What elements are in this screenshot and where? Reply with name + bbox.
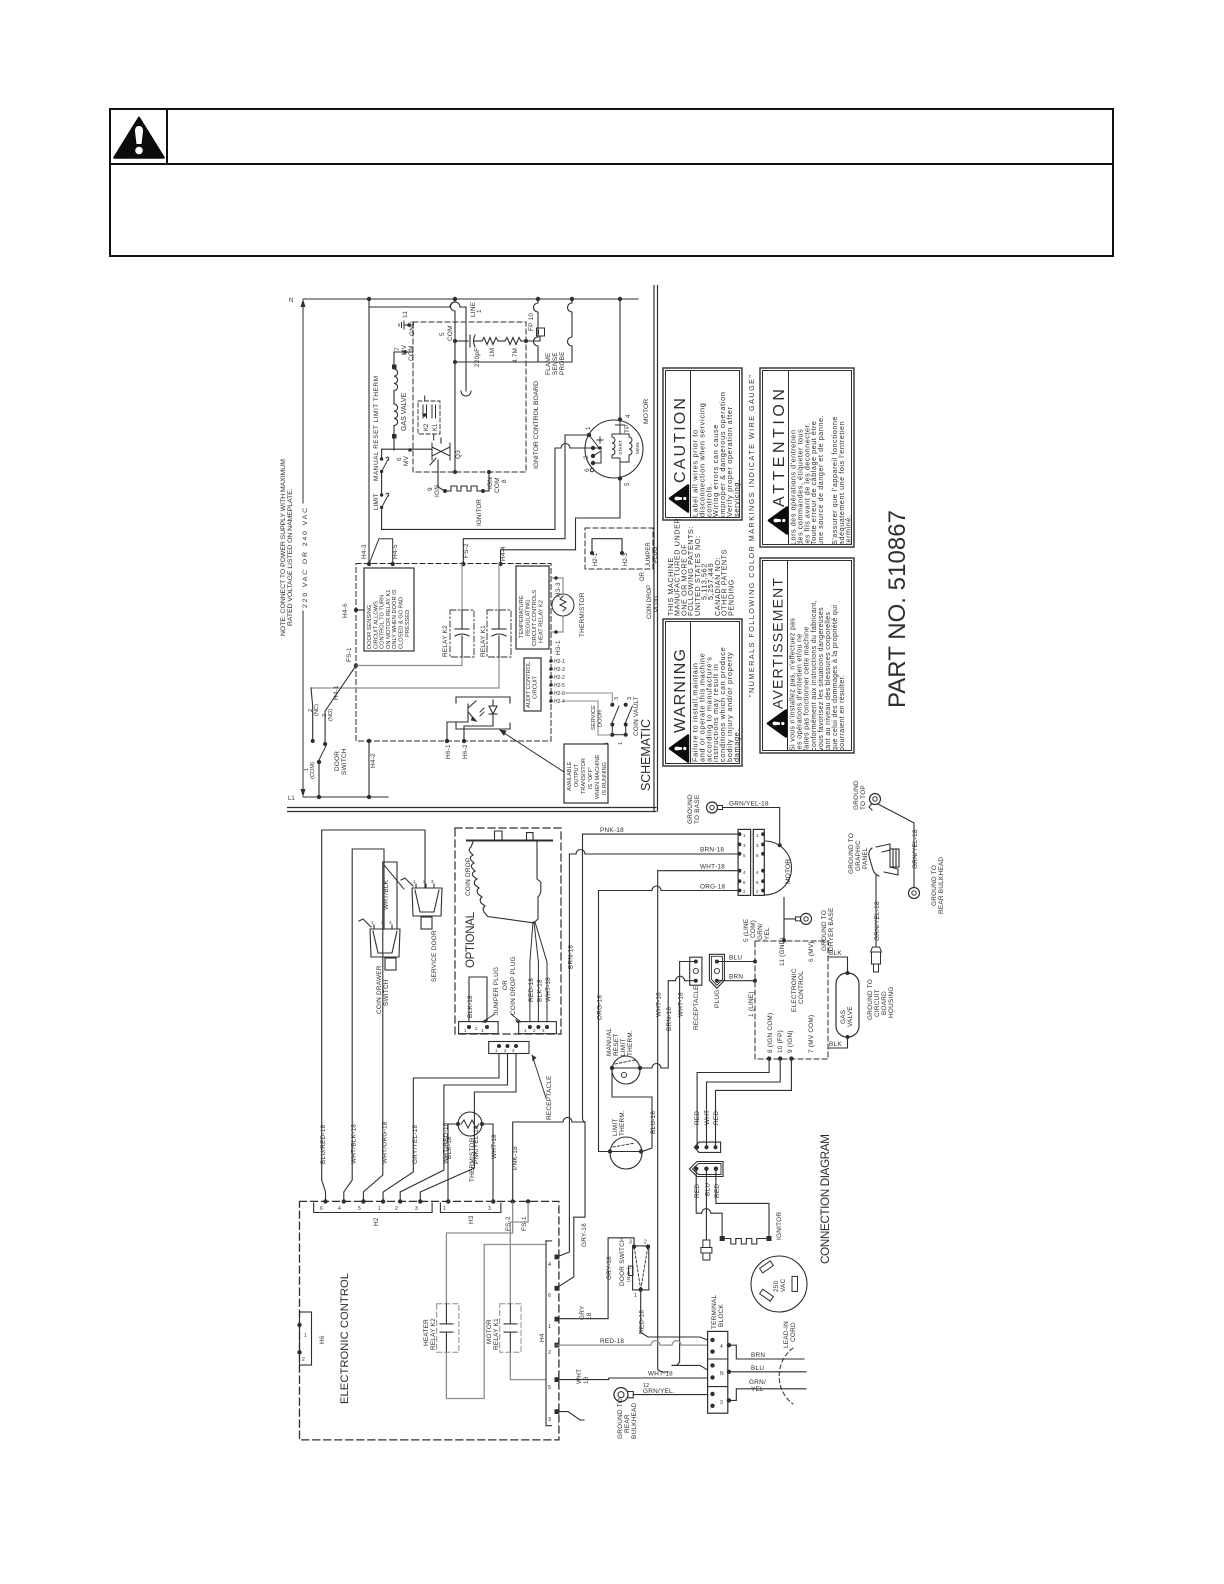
CAUTION box frame bbox=[663, 368, 742, 520]
svg-text:H4: H4 bbox=[539, 1333, 546, 1342]
ground to circuit board housing bbox=[867, 979, 895, 1020]
svg-text:BOARD: BOARD bbox=[881, 991, 888, 1015]
svg-text:18: 18 bbox=[583, 1376, 590, 1384]
WARNING title bbox=[670, 649, 689, 762]
svg-text:3: 3 bbox=[548, 1417, 551, 1423]
receptacle connector bbox=[489, 1042, 529, 1054]
svg-text:RATED VOLTAGE LISTED ON NAMEPL: RATED VOLTAGE LISTED ON NAMEPLATE. bbox=[287, 488, 294, 626]
svg-text:250: 250 bbox=[773, 1280, 780, 1292]
svg-text:OR: OR bbox=[502, 980, 509, 990]
wire IGN COM 8 bbox=[483, 472, 489, 491]
svg-text:LIMIT: LIMIT bbox=[620, 1038, 627, 1056]
svg-text:IGN: IGN bbox=[434, 485, 441, 497]
wires H6-1 H6-2 bbox=[447, 718, 468, 741]
svg-text:GRN/YEL.: GRN/YEL. bbox=[643, 1388, 675, 1395]
svg-text:H2-5: H2-5 bbox=[554, 683, 565, 689]
svg-text:FP 10: FP 10 bbox=[528, 313, 535, 331]
svg-text:6: 6 bbox=[548, 1293, 551, 1299]
svg-text:Q3: Q3 bbox=[455, 450, 462, 459]
wire audit to service door bbox=[565, 693, 612, 702]
wire WHT-18 riser 1 bbox=[658, 871, 668, 1372]
svg-text:WARNING: WARNING bbox=[672, 649, 689, 733]
svg-text:COM): COM) bbox=[750, 920, 757, 938]
svg-text:COIN DROP: COIN DROP bbox=[465, 858, 472, 896]
wire H2-3 PNK/YEL-18 to receptacle bbox=[420, 1054, 516, 1204]
wire motor feed x620 bbox=[619, 299, 621, 419]
svg-text:TO TOP: TO TOP bbox=[860, 785, 867, 810]
ATTENTION box frame bbox=[760, 368, 854, 547]
AVERTISSEMENT title bbox=[768, 578, 786, 737]
svg-text:NOTE: CONNECT TO POWER SUPPLY: NOTE: CONNECT TO POWER SUPPLY WITH MAXIM… bbox=[280, 459, 287, 636]
svg-text:GRAPHIC: GRAPHIC bbox=[855, 840, 862, 871]
ground to base eyelet bbox=[707, 802, 718, 813]
svg-text:8 (IGN COM): 8 (IGN COM) bbox=[767, 1013, 774, 1053]
svg-text:GRY/YEL-18: GRY/YEL-18 bbox=[412, 1124, 419, 1164]
svg-text:COM: COM bbox=[447, 325, 454, 341]
coin drop plug connector (right) bbox=[519, 1022, 557, 1034]
svg-text:7: 7 bbox=[394, 347, 401, 351]
svg-text:GRN/YEL-18: GRN/YEL-18 bbox=[729, 801, 769, 808]
test point TP bbox=[616, 420, 625, 431]
svg-text:IGNITOR: IGNITOR bbox=[776, 1212, 783, 1240]
relay K1 coil bbox=[487, 610, 511, 657]
node FS-2 bbox=[511, 1199, 515, 1203]
wire FS-2 to heater relay K2 bbox=[446, 1203, 512, 1304]
svg-text:COIN VAULT: COIN VAULT bbox=[633, 696, 640, 736]
svg-text:GRN/YEL-18: GRN/YEL-18 bbox=[874, 901, 881, 941]
svg-text:1M: 1M bbox=[489, 348, 496, 357]
ignitor element (connection diagram) bbox=[725, 1239, 767, 1245]
svg-text:PART NO. 510867: PART NO. 510867 bbox=[884, 510, 911, 708]
svg-text:H2-3: H2-3 bbox=[554, 667, 565, 673]
svg-text:K2: K2 bbox=[424, 423, 430, 431]
svg-text:IS RUNNING: IS RUNNING bbox=[602, 762, 608, 795]
wire WHT-18 risers into terminal block bbox=[672, 1365, 708, 1370]
warning triangle icon bbox=[115, 118, 164, 158]
svg-text:GROUND TO: GROUND TO bbox=[931, 865, 938, 906]
svg-text:IGNITOR: IGNITOR bbox=[476, 499, 483, 526]
wire BLU lead-in bbox=[729, 1371, 806, 1373]
svg-text:REGULATING: REGULATING bbox=[526, 599, 532, 636]
blu/brn plug bbox=[709, 954, 724, 988]
svg-text:2: 2 bbox=[548, 1350, 551, 1356]
svg-text:H4-5: H4-5 bbox=[392, 544, 399, 559]
svg-text:BLU-18: BLU-18 bbox=[650, 1111, 657, 1134]
svg-text:REAR BULKHEAD: REAR BULKHEAD bbox=[938, 857, 945, 914]
wire H2-4 WHT/BLK to coin drawer switch bbox=[344, 849, 384, 1203]
svg-text:RED-18: RED-18 bbox=[528, 978, 535, 1002]
svg-text:N: N bbox=[289, 298, 293, 304]
svg-text:BLK-18: BLK-18 bbox=[467, 995, 474, 1018]
svg-text:2: 2 bbox=[644, 1240, 647, 1246]
svg-text:ORG-18: ORG-18 bbox=[597, 995, 604, 1020]
svg-text:WHT-18: WHT-18 bbox=[656, 992, 663, 1017]
node H4-6 bbox=[354, 608, 358, 612]
wire GRN/YEL-18 ground to base bbox=[723, 808, 780, 846]
ATTENTION body text bbox=[789, 415, 853, 545]
svg-text:START: START bbox=[618, 440, 623, 455]
svg-text:BLU/RED-18: BLU/RED-18 bbox=[320, 1124, 327, 1164]
node H4-4 bbox=[498, 562, 502, 566]
svg-text:IS "OFF": IS "OFF" bbox=[588, 767, 594, 789]
ground eyelet GRN/YEL 12 bbox=[614, 1388, 628, 1402]
svg-text:GROUND TO: GROUND TO bbox=[617, 1398, 624, 1439]
svg-text:OR: OR bbox=[640, 571, 646, 581]
svg-text:THERM.: THERM. bbox=[619, 1110, 626, 1136]
wire RED-18 door switch bbox=[641, 1292, 708, 1340]
rail A (bottom) bbox=[303, 796, 388, 798]
wire door sw NO to FS-1 bbox=[325, 666, 356, 745]
svg-text:2: 2 bbox=[583, 455, 590, 459]
svg-text:JUMPER PLUG: JUMPER PLUG bbox=[493, 967, 500, 1015]
svg-text:1: 1 bbox=[618, 742, 624, 745]
svg-text:H4-6: H4-6 bbox=[342, 603, 349, 618]
wire COM feed x538 bbox=[526, 299, 538, 362]
svg-text:WHT-18: WHT-18 bbox=[700, 864, 725, 871]
svg-text:SWITCH: SWITCH bbox=[383, 979, 390, 1006]
wire RED left to ignitor bbox=[696, 1169, 722, 1236]
svg-text:H2-2: H2-2 bbox=[554, 675, 565, 681]
svg-text:5: 5 bbox=[624, 482, 631, 486]
svg-text:ELECTRONIC: ELECTRONIC bbox=[791, 968, 798, 1012]
svg-text:SERVICE DOOR: SERVICE DOOR bbox=[431, 930, 438, 982]
left supply span line with arrows bbox=[302, 302, 304, 794]
svg-text:H6-1: H6-1 bbox=[445, 744, 452, 759]
svg-text:HEAT RELAY K2: HEAT RELAY K2 bbox=[539, 600, 545, 643]
CAUTION title bbox=[670, 398, 689, 512]
svg-text:DRYER BASE: DRYER BASE bbox=[828, 907, 835, 951]
ignitor connector plugs RED WHT RED bbox=[694, 1142, 720, 1152]
svg-text:SCHEMATIC: SCHEMATIC bbox=[639, 719, 653, 791]
svg-text:4: 4 bbox=[720, 1344, 723, 1350]
wire manual reset right to BRN riser bbox=[640, 1064, 668, 1069]
svg-text:CONNECTION DIAGRAM: CONNECTION DIAGRAM bbox=[818, 1134, 832, 1264]
svg-text:COIN DRAWER: COIN DRAWER bbox=[376, 965, 383, 1014]
note text bbox=[280, 459, 294, 636]
node H4-3 bbox=[367, 562, 371, 566]
svg-text:pourraient en résulter.: pourraient en résulter. bbox=[839, 675, 846, 751]
svg-text:IGNITOR CONTROL BOARD: IGNITOR CONTROL BOARD bbox=[533, 381, 540, 469]
svg-text:H4-3: H4-3 bbox=[361, 544, 368, 559]
svg-text:RELAY K1: RELAY K1 bbox=[480, 625, 487, 657]
svg-text:GRN/: GRN/ bbox=[757, 923, 764, 940]
ground to dryer base eyelet bbox=[801, 913, 812, 924]
wire ORG-18 riser bbox=[599, 891, 610, 1152]
svg-text:10 (FP): 10 (FP) bbox=[777, 1030, 784, 1053]
motor M (connection diagram) bbox=[765, 841, 792, 895]
svg-text:BLU: BLU bbox=[751, 1365, 764, 1372]
wire WHT-18 motor bbox=[658, 870, 738, 872]
motor start winding bbox=[612, 431, 629, 458]
svg-text:6: 6 bbox=[396, 457, 403, 461]
lead-in cord arc bbox=[779, 1348, 793, 1404]
WARNING box frame bbox=[663, 619, 742, 766]
svg-text:11: 11 bbox=[402, 311, 409, 318]
svg-text:3: 3 bbox=[488, 1206, 491, 1212]
heater relay K2 bbox=[437, 1304, 459, 1353]
terminal block bbox=[708, 1331, 728, 1413]
svg-text:1 (LINE): 1 (LINE) bbox=[748, 991, 755, 1017]
svg-text:VAC: VAC bbox=[780, 1278, 787, 1292]
svg-text:(NC): (NC) bbox=[314, 704, 320, 716]
svg-text:BRN-18: BRN-18 bbox=[700, 847, 724, 854]
svg-text:GRY-18: GRY-18 bbox=[581, 1223, 588, 1247]
svg-text:DOOR: DOOR bbox=[334, 751, 341, 771]
wire H2-1 GRY/YEL-18 to receptacle bbox=[383, 1054, 499, 1204]
svg-text:DOOR: DOOR bbox=[598, 710, 604, 727]
wire COM net x572 bbox=[455, 299, 572, 362]
svg-text:les opérations d'entretien et/: les opérations d'entretien et/ou ne bbox=[797, 634, 804, 752]
coin drop mechanism outline bbox=[467, 831, 552, 923]
svg-text:PRESSED: PRESSED bbox=[405, 610, 411, 637]
wire motor to dryer base ground bbox=[783, 898, 785, 941]
svg-text:LIMIT: LIMIT bbox=[373, 493, 380, 510]
svg-text:RED: RED bbox=[713, 1111, 720, 1125]
svg-text:WHEN MACHINE: WHEN MACHINE bbox=[595, 754, 601, 799]
svg-text:RED-18: RED-18 bbox=[600, 1338, 624, 1345]
schematic right/bottom double border bbox=[287, 285, 658, 812]
svg-text:ONLY WHEN DOOR IS: ONLY WHEN DOOR IS bbox=[392, 589, 398, 649]
coin vault switch (schematic) bbox=[612, 706, 632, 735]
svg-text:que celui des dommages à la pr: que celui des dommages à la propriété qu… bbox=[832, 605, 839, 751]
svg-text:11 (GND): 11 (GND) bbox=[779, 937, 786, 966]
manual reset limit therm switch bbox=[382, 457, 389, 471]
temperature regulating info box bbox=[516, 566, 549, 649]
svg-text:H3-3: H3-3 bbox=[555, 582, 562, 597]
svg-text:LEAD-IN: LEAD-IN bbox=[783, 1321, 790, 1348]
svg-text:1: 1 bbox=[378, 1206, 381, 1212]
250 VAC receptacle bbox=[751, 1256, 807, 1312]
svg-text:CIRCUIT: CIRCUIT bbox=[874, 989, 881, 1017]
wire ORG-18 motor bbox=[599, 886, 739, 891]
wire PNK-18 riser bbox=[557, 834, 585, 1288]
svg-text:1: 1 bbox=[634, 1293, 637, 1299]
svg-text:GROUND: GROUND bbox=[687, 794, 694, 824]
H2 connector bbox=[314, 1203, 432, 1213]
svg-text:PLUG: PLUG bbox=[654, 595, 660, 612]
svg-text:1: 1 bbox=[476, 309, 483, 313]
wire RED-18 H4-2 to terminal block bbox=[557, 1341, 708, 1346]
svg-text:servicing.: servicing. bbox=[732, 479, 741, 517]
svg-text:RESET: RESET bbox=[613, 1033, 620, 1056]
svg-text:THERMISTOR: THERMISTOR bbox=[469, 1137, 476, 1182]
svg-text:RED: RED bbox=[714, 1184, 721, 1198]
svg-text:TEMPERATURE: TEMPERATURE bbox=[519, 595, 525, 638]
svg-text:HOUSING: HOUSING bbox=[888, 986, 895, 1018]
available output note box bbox=[564, 744, 608, 803]
motor pin 5 bbox=[618, 476, 622, 480]
svg-text:6: 6 bbox=[320, 1206, 323, 1212]
svg-text:SERVICE: SERVICE bbox=[591, 705, 597, 730]
triac Q3 bbox=[430, 443, 450, 465]
svg-text:GRY: GRY bbox=[579, 1305, 586, 1320]
svg-text:GRN/: GRN/ bbox=[749, 1379, 766, 1386]
svg-text:une source de danger et de pan: une source de danger et de panne. bbox=[816, 415, 825, 545]
relay K2 coil bbox=[450, 610, 474, 657]
svg-text:BRN: BRN bbox=[751, 1352, 765, 1359]
wire Q3 to ignitor bbox=[438, 438, 445, 491]
svg-text:N: N bbox=[720, 1371, 724, 1377]
wire COM riser x455 bbox=[451, 299, 456, 472]
svg-text:THERMISTOR: THERMISTOR bbox=[579, 592, 586, 637]
wire motor relay K1 to H4-1 bbox=[510, 1352, 546, 1379]
svg-text:3: 3 bbox=[629, 1240, 632, 1246]
svg-text:K1: K1 bbox=[433, 423, 439, 431]
crimp terminal bbox=[871, 947, 882, 972]
ground to graphic panel clip bbox=[869, 844, 899, 876]
flame probe FP 10 bbox=[537, 328, 545, 336]
svg-text:RELAY K2: RELAY K2 bbox=[430, 1318, 437, 1350]
svg-text:PNK-18: PNK-18 bbox=[512, 1146, 519, 1170]
svg-text:terminé.: terminé. bbox=[844, 515, 853, 545]
svg-text:BRN-18: BRN-18 bbox=[666, 1007, 673, 1031]
svg-text:WHT: WHT bbox=[576, 1369, 583, 1384]
wires gas valve BLK bbox=[828, 957, 848, 973]
svg-text:220pF: 220pF bbox=[474, 348, 481, 367]
limit therm (connection diagram) bbox=[610, 1137, 642, 1169]
svg-text:PLUG: PLUG bbox=[714, 990, 721, 1008]
svg-text:18: 18 bbox=[586, 1312, 593, 1320]
wire RED right to ignitor bbox=[716, 1169, 769, 1236]
coin drawer switch CS1 bbox=[359, 919, 400, 970]
svg-text:COM: COM bbox=[408, 345, 415, 361]
svg-text:WHT-18: WHT-18 bbox=[491, 1134, 498, 1159]
wire motor pin5 to H4-4 bbox=[501, 479, 621, 565]
svg-text:WHT-18: WHT-18 bbox=[648, 1371, 673, 1378]
svg-text:FS-1: FS-1 bbox=[521, 1216, 528, 1231]
service door switch (schematic) bbox=[612, 706, 619, 735]
svg-text:3: 3 bbox=[720, 1400, 723, 1406]
svg-text:H3-1: H3-1 bbox=[555, 640, 562, 655]
svg-text:BLK-18: BLK-18 bbox=[537, 979, 544, 1002]
svg-text:vous favorisez les situations: vous favorisez les situations dangereuse… bbox=[818, 607, 825, 751]
svg-text:DOOR SENSING: DOOR SENSING bbox=[367, 605, 373, 649]
wire GRY-18 H4-1 to door switch bbox=[557, 1238, 634, 1319]
door sensing info box bbox=[364, 568, 414, 651]
svg-text:REAR: REAR bbox=[624, 1414, 631, 1433]
svg-text:H2-3: H2-3 bbox=[623, 552, 629, 566]
svg-text:TRANSISTOR: TRANSISTOR bbox=[581, 758, 587, 794]
opto output transistor bbox=[456, 697, 510, 729]
thermistor (connection diagram) bbox=[458, 1112, 482, 1136]
svg-text:GRY-18: GRY-18 bbox=[606, 1256, 613, 1280]
ground GND 11 bbox=[399, 321, 413, 329]
svg-text:H6-2: H6-2 bbox=[462, 744, 469, 759]
svg-text:GAS VALVE: GAS VALVE bbox=[401, 392, 408, 431]
svg-text:4: 4 bbox=[625, 414, 632, 418]
flame sense chain bbox=[455, 335, 540, 347]
wire BLK-18 thermistor bbox=[448, 1124, 458, 1203]
svg-text:4: 4 bbox=[548, 1262, 551, 1268]
wire BRN-18 motor bbox=[569, 850, 738, 854]
ignitor control board dashed box bbox=[413, 322, 526, 472]
svg-text:WHT/BLK-18: WHT/BLK-18 bbox=[351, 1124, 358, 1164]
svg-text:5 (LINE: 5 (LINE bbox=[743, 919, 750, 942]
H3 connector bbox=[440, 1203, 501, 1213]
svg-text:TP: TP bbox=[624, 424, 631, 433]
jumper plug connector (left) bbox=[459, 1022, 499, 1034]
ATTENTION title bbox=[769, 389, 788, 534]
blu/brn receptacle strip bbox=[690, 957, 702, 985]
motor relay K1 bbox=[500, 1304, 521, 1353]
node H4-5 bbox=[391, 562, 395, 566]
rail N (top supply rail) bbox=[303, 298, 638, 300]
svg-text:CLOSED & GO PAD: CLOSED & GO PAD bbox=[399, 597, 405, 649]
svg-text:PANEL: PANEL bbox=[862, 847, 869, 869]
ignitor element bbox=[445, 486, 483, 491]
svg-text:GROUND TO: GROUND TO bbox=[848, 833, 855, 874]
wire LINE tee bbox=[369, 302, 466, 391]
svg-text:RED-18: RED-18 bbox=[639, 1310, 646, 1334]
svg-text:COIN DROP PLUG: COIN DROP PLUG bbox=[510, 956, 517, 1015]
svg-text:1: 1 bbox=[585, 426, 592, 430]
svg-text:AUDIT CONTROL: AUDIT CONTROL bbox=[526, 662, 532, 708]
gas valve GV1 bbox=[382, 352, 431, 450]
svg-text:RECEPTACLE: RECEPTACLE bbox=[693, 985, 700, 1030]
svg-text:MOTOR: MOTOR bbox=[643, 399, 650, 424]
svg-text:FLAME: FLAME bbox=[545, 352, 552, 375]
svg-text:MOTOR: MOTOR bbox=[486, 1319, 493, 1344]
wire motor pin1 to FS-2 bbox=[463, 435, 589, 564]
svg-text:RECEPTACLE: RECEPTACLE bbox=[546, 1075, 553, 1120]
svg-text:IGN: IGN bbox=[487, 477, 494, 489]
svg-text:WHT/ORG-18: WHT/ORG-18 bbox=[381, 1121, 388, 1164]
svg-text:TO BASE: TO BASE bbox=[694, 795, 701, 824]
svg-text:LIMIT: LIMIT bbox=[612, 1118, 619, 1136]
svg-text:H4-4: H4-4 bbox=[500, 546, 507, 561]
wire H4-3 riser x369 bbox=[369, 299, 382, 564]
svg-text:WHT-18: WHT-18 bbox=[545, 977, 552, 1002]
AVERTISSEMENT body text bbox=[790, 600, 847, 751]
door switch (connection diagram) bbox=[633, 1246, 649, 1290]
svg-text:GAS: GAS bbox=[840, 1010, 847, 1024]
ground to top bbox=[853, 780, 867, 810]
wire manual reset to BLU-18 bbox=[612, 1068, 652, 1152]
svg-text:RELAY K1: RELAY K1 bbox=[493, 1318, 500, 1350]
wire WHT-18 H4-5 bbox=[557, 1378, 708, 1380]
svg-text:MOTOR: MOTOR bbox=[785, 859, 792, 884]
svg-text:GROUND: GROUND bbox=[853, 780, 860, 810]
wire WHT-18 receptacle riser bbox=[672, 962, 696, 1366]
svg-text:Si vous n'installez pas, n'eff: Si vous n'installez pas, n'effectuez pas bbox=[790, 618, 797, 751]
svg-text:6 (MV): 6 (MV) bbox=[808, 941, 815, 962]
wire H3-1 bbox=[549, 616, 563, 632]
svg-text:SENSE: SENSE bbox=[552, 352, 559, 375]
svg-text:1: 1 bbox=[443, 1206, 446, 1212]
svg-text:DOOR SWITCH: DOOR SWITCH bbox=[619, 1237, 626, 1286]
svg-text:5: 5 bbox=[358, 1206, 361, 1212]
manual reset limit therm (connection diagram) bbox=[612, 1056, 640, 1084]
svg-text:BLU: BLU bbox=[729, 955, 742, 962]
svg-text:4.7M: 4.7M bbox=[512, 348, 519, 363]
svg-text:THERM.: THERM. bbox=[627, 1030, 634, 1056]
svg-text:H2-1: H2-1 bbox=[593, 552, 599, 566]
limit therm switch bbox=[382, 493, 389, 507]
wire H2-5 to coin drawer switch pin3 bbox=[363, 862, 397, 1203]
warning banner box bbox=[110, 109, 1113, 256]
wire BRN lead-in bbox=[729, 1345, 804, 1359]
svg-text:BLK-18: BLK-18 bbox=[446, 1136, 453, 1159]
wire PNK-18 bbox=[583, 833, 739, 835]
svg-text:CORD: CORD bbox=[790, 1322, 797, 1342]
motor centrifugal switch bbox=[589, 435, 603, 463]
AVERTISSEMENT box frame bbox=[760, 558, 854, 753]
svg-text:GROUND TO: GROUND TO bbox=[867, 979, 874, 1020]
svg-text:BLK: BLK bbox=[829, 950, 842, 957]
svg-text:SWITCH: SWITCH bbox=[341, 748, 348, 775]
svg-text:(N.O.): (N.O.) bbox=[626, 1267, 632, 1282]
ignitor plug lower bbox=[689, 1162, 723, 1177]
